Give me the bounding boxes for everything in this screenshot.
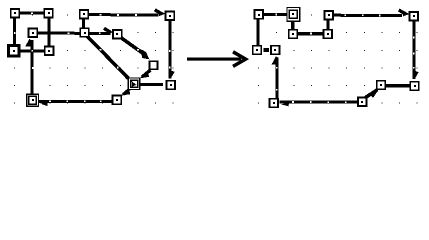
node R6 bbox=[323, 30, 332, 39]
wire E3 N2-Ne bbox=[48, 17, 50, 47]
wire E13 N7-N8 bbox=[140, 83, 164, 86]
wire F1 R1-R2 bbox=[263, 14, 287, 16]
node R12 bbox=[410, 82, 419, 91]
wire F12 R4-R12 bbox=[413, 21, 419, 80]
node Nd big bbox=[8, 45, 19, 56]
node N5 bbox=[113, 30, 122, 39]
wire F6 R3-R6 bbox=[326, 20, 329, 31]
node R1 bbox=[255, 10, 264, 19]
wire E7 Nd-Ne bbox=[21, 49, 45, 52]
wire F8 R9-R8 bbox=[272, 56, 279, 98]
wire E6 N3-N4 bbox=[89, 10, 166, 16]
node N3 bbox=[80, 10, 89, 19]
wire E4 Nc-N3b-N5 bbox=[37, 28, 114, 35]
node N4 bbox=[166, 11, 175, 20]
node Ne bbox=[45, 47, 54, 56]
node R2 selected bbox=[287, 8, 300, 22]
node N3b bbox=[80, 28, 89, 37]
wire E5 N3-N3b bbox=[82, 18, 85, 29]
wire F10 R10-R11 diagonal bbox=[366, 88, 380, 98]
node R3 bbox=[324, 11, 333, 20]
node N1 bbox=[11, 9, 20, 18]
node N9 selected bbox=[27, 94, 39, 106]
wire F5 R5-R6 bbox=[298, 33, 324, 35]
node R10 bbox=[358, 98, 367, 107]
wire F3 R1-R7 bbox=[256, 19, 259, 46]
wire F11 R11-R12 bbox=[386, 84, 410, 88]
node R5 bbox=[289, 30, 298, 39]
node N2 bbox=[44, 9, 53, 18]
node R4 bbox=[409, 12, 418, 21]
grid dots right panel bbox=[258, 15, 417, 104]
grid dots left panel bbox=[14, 15, 173, 104]
wire F7 R7-R8 short bbox=[264, 48, 269, 52]
node N6 bbox=[150, 61, 158, 69]
wire E2 N1-Nd bbox=[14, 17, 16, 45]
arrowhead inside N7 bbox=[132, 81, 137, 86]
node N8 bbox=[166, 81, 175, 90]
wire F9 R10-R9 bbox=[280, 101, 359, 106]
wire E10 N5-N6 diagonal bbox=[122, 38, 150, 59]
node R7 bbox=[253, 46, 262, 55]
node R11 bbox=[377, 81, 386, 90]
wire F4 R2-R5 bbox=[291, 21, 294, 30]
wire E14 N10-N9 bbox=[39, 100, 113, 106]
node N7 selected bbox=[128, 78, 139, 89]
big arrow between graphs bbox=[187, 52, 246, 67]
wire E8 N9-Nc bbox=[25, 39, 33, 96]
wire F2 R3-R4 bbox=[333, 10, 409, 16]
wire E1 N1-N2 bbox=[19, 12, 45, 14]
wire E12 N6-N7 diagonal bbox=[140, 70, 151, 78]
node Nc bbox=[29, 29, 38, 38]
node R9 bbox=[270, 99, 279, 108]
node N10 bbox=[113, 96, 122, 105]
wire E11 N4-N8 bbox=[169, 20, 175, 79]
wire E9 N3b-N7 diagonal bbox=[88, 37, 129, 79]
wire E15 N7-N10 diagonal bbox=[121, 88, 130, 95]
node R8 bbox=[271, 46, 280, 55]
